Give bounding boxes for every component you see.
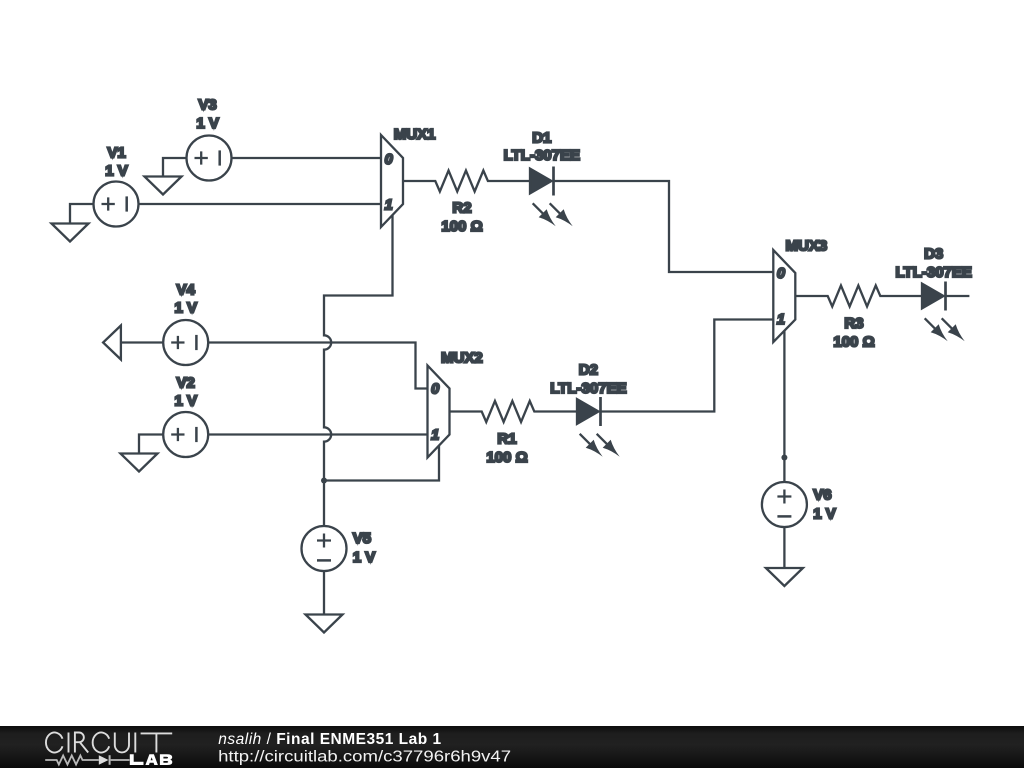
voltage source V1 [94, 182, 139, 227]
svg-text:MUX3: MUX3 [786, 238, 828, 255]
svg-text:1 V: 1 V [105, 162, 128, 179]
wire V4 to MUX2 input 0 [208, 343, 427, 389]
svg-text:100 Ω: 100 Ω [833, 334, 874, 351]
svg-text:0: 0 [777, 266, 785, 282]
svg-text:D3: D3 [924, 246, 943, 263]
resistor R2 [403, 171, 530, 192]
svg-text:1 V: 1 V [174, 392, 197, 409]
svg-text:1: 1 [777, 312, 785, 328]
svg-text:100 Ω: 100 Ω [486, 449, 527, 466]
wire V2 to MUX2 input 1 [208, 433, 427, 435]
wire MUX1 select to bus [324, 215, 393, 481]
mux MUX1 [381, 135, 403, 227]
wire V2 to ground [139, 435, 163, 454]
svg-text:R1: R1 [497, 431, 516, 448]
wire junction to MUX2 select [324, 446, 439, 481]
svg-text:V4: V4 [177, 282, 196, 299]
svg-text:LTL-307EE: LTL-307EE [895, 264, 971, 281]
voltage source V2 [163, 412, 208, 457]
svg-text:V5: V5 [353, 530, 371, 547]
node junction dot (bus / V5 / MUX2 select) [321, 478, 327, 484]
wire D1 to MUX3 input 0 [554, 181, 774, 272]
ground (V2) [121, 454, 158, 472]
wire flag to V4 [121, 341, 163, 343]
svg-text:1: 1 [385, 198, 393, 214]
CircuitLab logo resistor-diode wire [45, 755, 129, 765]
wire D3 anode out [946, 295, 970, 297]
svg-text:V2: V2 [177, 375, 195, 392]
svg-text:1 V: 1 V [353, 549, 376, 566]
wire V3 to MUX1 input 0 [232, 157, 382, 159]
svg-text:1 V: 1 V [196, 115, 219, 132]
ground flag pointing left (V4) [103, 326, 121, 360]
svg-text:V6: V6 [813, 487, 831, 504]
svg-text:1: 1 [431, 427, 439, 443]
wire junction to V5 [323, 481, 325, 527]
svg-text:D1: D1 [532, 130, 551, 147]
ground (V3) [145, 177, 182, 195]
resistor R1 [450, 401, 578, 422]
wire dot to V6 [783, 458, 785, 483]
wire V6 to ground [783, 527, 785, 568]
voltage source V6 [762, 482, 807, 527]
svg-text:V3: V3 [198, 97, 216, 114]
svg-text:MUX2: MUX2 [441, 350, 483, 367]
voltage source V5 [302, 526, 347, 571]
svg-text:R2: R2 [452, 200, 471, 217]
CircuitLab logo wordmark CIRCUIT [46, 732, 172, 752]
svg-text:nsalih / Final ENME351 Lab 1: nsalih / Final ENME351 Lab 1 [218, 731, 441, 748]
ground (V6) [766, 568, 803, 586]
svg-text:D2: D2 [579, 362, 598, 379]
wire V1 to ground [70, 204, 94, 224]
ground (V1) [52, 224, 89, 242]
LED D1 [530, 167, 573, 227]
LED D3 [922, 282, 965, 342]
wire MUX3 select to V6 [783, 331, 785, 458]
resistor R3 [795, 286, 922, 307]
svg-text:0: 0 [431, 382, 439, 398]
CircuitLab logo LAB [130, 754, 173, 765]
svg-text:1 V: 1 V [174, 299, 197, 316]
voltage source V3 [187, 136, 232, 181]
LED D2 [577, 397, 620, 457]
ground (V5) [306, 615, 343, 633]
svg-text:LTL-307EE: LTL-307EE [504, 147, 580, 164]
wire D2 to MUX3 input 1 [601, 320, 774, 412]
wire V1 to MUX1 input 1 [139, 203, 382, 205]
mux MUX3 [773, 250, 795, 342]
wire V5 to ground [323, 571, 325, 615]
footer bar [0, 726, 1024, 768]
voltage source V4 [163, 320, 208, 365]
svg-text:1 V: 1 V [813, 505, 836, 522]
svg-text:LTL-307EE: LTL-307EE [550, 380, 626, 397]
svg-text:MUX1: MUX1 [394, 126, 436, 143]
svg-text:100 Ω: 100 Ω [441, 218, 482, 235]
svg-text:V1: V1 [107, 145, 125, 162]
svg-text:R3: R3 [844, 315, 863, 332]
svg-text:0: 0 [385, 152, 393, 168]
mux MUX2 [428, 366, 450, 458]
svg-text:http://circuitlab.com/c37796r6: http://circuitlab.com/c37796r6h9v47 [218, 749, 511, 766]
wire V3 to ground [163, 158, 187, 177]
node junction dot (MUX3 select / V6) [781, 455, 787, 461]
